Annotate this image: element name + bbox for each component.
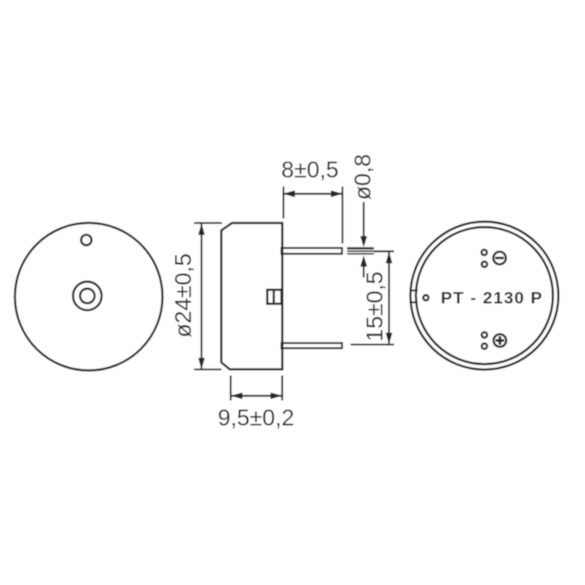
back view bottom terminal hole 1 (482, 332, 487, 337)
dimension dia24 top arrow (198, 223, 205, 235)
back view outer circle (410, 222, 558, 370)
dimension 8±0,5 line (283, 193, 342, 195)
front view center hole inner (80, 289, 95, 304)
svg-text:PT - 2130 P: PT - 2130 P (441, 289, 543, 308)
svg-text:15±0,5: 15±0,5 (362, 271, 388, 341)
back view inner circle (416, 227, 553, 364)
svg-text:ø0,8: ø0,8 (350, 154, 376, 200)
back view bottom terminal hole 2 (482, 344, 487, 349)
dimension 15±0,5 line (388, 252, 390, 344)
back view small hole (423, 295, 428, 300)
back view minus symbol (493, 252, 506, 265)
dimension 15±0,5 bottom arrow (386, 333, 393, 345)
dimension 8±0,5 right arrow (331, 190, 343, 197)
svg-text:9,5±0,2: 9,5±0,2 (218, 405, 295, 431)
dimension 15±0,5 extension line bottom (351, 344, 395, 346)
side view terminal detail rect (267, 290, 281, 304)
side view terminal detail divider (273, 290, 275, 304)
front view top small hole (81, 235, 91, 245)
dimension dia24 bottom arrow (198, 358, 205, 370)
front view outer circle (15, 223, 163, 371)
bottom pin (282, 343, 343, 348)
svg-text:8±0,5: 8±0,5 (281, 157, 338, 183)
dimension 9,5±0,2 left arrow (231, 393, 243, 400)
top pin (282, 248, 343, 254)
dimension dia24 extension line top (194, 222, 222, 224)
dimension dia24 extension line bottom (194, 368, 222, 370)
dimension 15±0,5 extension line top (374, 250, 394, 252)
front view center hole outer (73, 282, 102, 311)
side view body (221, 223, 282, 369)
dia 0,8 leader bottom arrow (363, 262, 365, 278)
dimension 9,5±0,2 line (231, 395, 282, 397)
dimension 8±0,5 left arrow (283, 190, 295, 197)
dia 0,8 leader top arrow (363, 202, 365, 240)
dimension 8±0,5 extension line right (341, 187, 343, 244)
dimension 9,5±0,2 right arrow (271, 393, 283, 400)
svg-text:ø24±0,5: ø24±0,5 (170, 253, 196, 337)
back view notch line top (411, 289, 418, 291)
back view plus symbol (494, 334, 507, 347)
pin section block (347, 247, 374, 254)
back view top terminal hole 2 (482, 262, 487, 267)
dimension 15±0,5 top arrow (386, 252, 393, 263)
back view top terminal hole 1 (482, 250, 487, 255)
dimension 9,5±0,2 extension line left (230, 376, 232, 401)
dimension dia24 line (201, 223, 203, 369)
dimension 9,5±0,2 extension line right (281, 376, 283, 401)
back view notch line bottom (411, 301, 418, 303)
dimension 8±0,5 extension line left (282, 187, 284, 219)
